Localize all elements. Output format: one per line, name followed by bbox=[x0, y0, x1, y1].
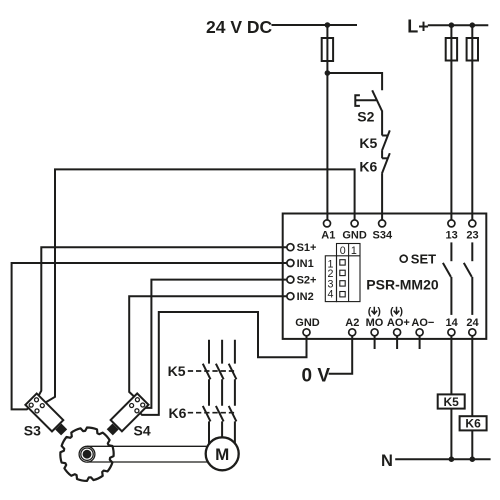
svg-text:AO+: AO+ bbox=[387, 317, 410, 329]
svg-text:0: 0 bbox=[340, 245, 346, 257]
svg-text:L+: L+ bbox=[407, 16, 429, 36]
svg-text:GND: GND bbox=[295, 317, 320, 329]
svg-text:S2+: S2+ bbox=[297, 275, 317, 287]
svg-text:S1+: S1+ bbox=[297, 242, 317, 254]
svg-text:K5: K5 bbox=[168, 363, 186, 379]
svg-text:1: 1 bbox=[351, 245, 357, 257]
svg-text:A2: A2 bbox=[345, 317, 359, 329]
svg-text:M: M bbox=[215, 445, 229, 464]
svg-text:PSR-MM20: PSR-MM20 bbox=[366, 276, 439, 292]
svg-text:13: 13 bbox=[445, 229, 457, 241]
svg-text:(: ( bbox=[390, 306, 394, 318]
svg-text:): ) bbox=[377, 306, 381, 318]
svg-text:24: 24 bbox=[466, 317, 479, 329]
svg-text:IN2: IN2 bbox=[297, 291, 314, 303]
svg-text:A1: A1 bbox=[321, 229, 335, 241]
svg-text:23: 23 bbox=[466, 229, 478, 241]
svg-text:AO−: AO− bbox=[411, 317, 434, 329]
svg-text:S3: S3 bbox=[24, 423, 41, 439]
svg-text:14: 14 bbox=[445, 317, 458, 329]
svg-text:IN1: IN1 bbox=[297, 258, 314, 270]
svg-text:SET: SET bbox=[411, 251, 436, 266]
svg-text:K5: K5 bbox=[359, 135, 377, 151]
svg-text:24 V DC: 24 V DC bbox=[206, 17, 272, 37]
svg-text:S4: S4 bbox=[134, 423, 151, 439]
svg-text:N: N bbox=[381, 452, 393, 470]
svg-text:(: ( bbox=[368, 306, 372, 318]
svg-text:S34: S34 bbox=[373, 229, 393, 241]
svg-text:K6: K6 bbox=[359, 159, 377, 175]
svg-text:K6: K6 bbox=[465, 417, 481, 431]
svg-text:K5: K5 bbox=[444, 395, 460, 409]
svg-text:): ) bbox=[400, 306, 404, 318]
svg-text:GND: GND bbox=[342, 229, 367, 241]
svg-text:MO: MO bbox=[366, 317, 384, 329]
svg-text:K6: K6 bbox=[169, 405, 187, 421]
svg-text:0 V: 0 V bbox=[302, 366, 331, 387]
svg-text:S2: S2 bbox=[357, 108, 374, 124]
svg-text:4: 4 bbox=[328, 288, 334, 300]
